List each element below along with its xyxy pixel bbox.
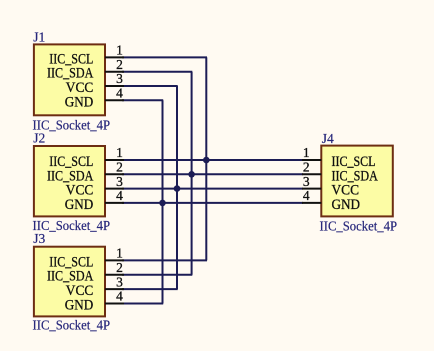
svg-text:GND: GND [65, 298, 94, 314]
J1 pin 1 IIC_SCL [49, 43, 124, 68]
wire J3 pin3 to VCC bus [122, 288, 178, 290]
J4 pin 1 IIC_SCL [302, 145, 376, 170]
svg-text:2: 2 [116, 260, 123, 275]
wire net SDA vertical (J1.2 / J3.2 bus) [191, 72, 193, 275]
wire J2 pin2 to J4 pin2 (SDA row) [122, 173, 303, 175]
svg-text:2: 2 [116, 57, 123, 72]
connector J3 body [34, 247, 105, 317]
svg-text:J2: J2 [33, 131, 45, 146]
wire net GND vertical (J1.4 / J3.4 bus) [162, 100, 164, 303]
junction dot SDA [188, 171, 195, 178]
svg-text:3: 3 [303, 174, 310, 189]
wire J3 pin2 to SDA bus [122, 274, 192, 276]
svg-text:4: 4 [116, 188, 123, 203]
junction dot VCC [174, 185, 181, 192]
wire J2 pin3 to J4 pin3 (VCC row) [122, 188, 303, 190]
wire J2 pin4 to J4 pin4 (GND row) [122, 202, 303, 204]
J3 pin 4 GND [65, 289, 124, 314]
J1 pin 3 VCC [66, 71, 124, 96]
svg-text:4: 4 [116, 289, 123, 304]
svg-text:3: 3 [116, 274, 123, 289]
J1 pin 2 IIC_SDA [47, 57, 124, 82]
J3 pin 3 VCC [66, 274, 124, 299]
svg-text:J3: J3 [33, 231, 45, 246]
svg-text:4: 4 [116, 86, 123, 101]
junction dot SCL (bus to J2 row) [203, 157, 210, 164]
svg-text:1: 1 [116, 246, 123, 261]
svg-text:GND: GND [65, 94, 94, 110]
connector J4 body [321, 146, 393, 217]
svg-text:2: 2 [303, 160, 310, 175]
connector J1 body [34, 44, 105, 115]
J4 pin 2 IIC_SDA [302, 160, 378, 185]
wire J1 pin1 to SCL bus [122, 56, 207, 58]
svg-text:4: 4 [303, 188, 310, 203]
svg-text:3: 3 [116, 71, 123, 86]
J3 pin 1 IIC_SCL [49, 246, 124, 271]
svg-text:3: 3 [116, 174, 123, 189]
J2 pin 2 IIC_SDA [47, 160, 124, 185]
svg-text:J1: J1 [33, 30, 45, 45]
svg-text:IIC_Socket_4P: IIC_Socket_4P [320, 218, 398, 233]
svg-text:J4: J4 [322, 131, 334, 146]
svg-text:1: 1 [116, 145, 123, 160]
J2 pin 3 VCC [66, 174, 124, 199]
J1 pin 4 GND [65, 86, 124, 111]
junction dot GND [159, 200, 166, 207]
wire J1 pin3 to VCC bus [122, 85, 178, 87]
wire J3 pin1 to SCL bus [122, 259, 207, 261]
J3 pin 2 IIC_SDA [47, 260, 124, 285]
svg-text:GND: GND [332, 197, 361, 213]
wire J2 pin1 to J4 pin1 (SCL row) [122, 159, 303, 161]
svg-text:2: 2 [116, 160, 123, 175]
svg-text:IIC_Socket_4P: IIC_Socket_4P [33, 317, 111, 332]
connector J2 body [34, 146, 105, 216]
wire net SCL vertical (J1.1 / J3.1 bus) [205, 57, 207, 260]
wire J1 pin2 to SDA bus [122, 71, 192, 73]
svg-text:1: 1 [303, 145, 310, 160]
wire J1 pin4 to GND bus [122, 99, 163, 101]
wire J3 pin4 to GND bus [122, 303, 163, 305]
J4 pin 3 VCC [302, 174, 359, 199]
svg-text:1: 1 [116, 43, 123, 58]
svg-text:GND: GND [65, 197, 94, 213]
wire net VCC vertical (J1.3 / J3.3 bus) [176, 86, 178, 289]
J2 pin 4 GND [65, 188, 124, 213]
J4 pin 4 GND [302, 188, 360, 213]
J2 pin 1 IIC_SCL [49, 145, 124, 170]
